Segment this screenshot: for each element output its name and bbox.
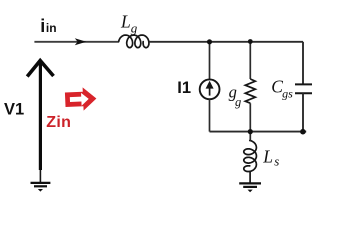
current source I1 (circle with up arrow) (200, 79, 220, 99)
node: junction dot bottom wire / Cgs (300, 129, 306, 135)
svg-text:Ls: Ls (262, 146, 279, 168)
wire: top horizontal input wire (34, 41, 118, 43)
wire: bottom horizontal wire (210, 131, 307, 133)
wire: capacitor top lead (right vertical drop) (302, 42, 304, 84)
svg-text:V1: V1 (4, 101, 24, 119)
node: junction dot top wire / gg (248, 39, 253, 44)
wire: top wire from Lg to top-right corner (149, 41, 303, 43)
ground (under Ls) (239, 183, 261, 192)
wire: Ls top lead (249, 132, 251, 141)
svg-text:Zin: Zin (46, 114, 71, 131)
wire: Ls bottom lead to ground (249, 172, 251, 183)
inductor Lg (119, 35, 149, 48)
capacitor Cgs (295, 84, 312, 93)
wire: resistor top lead (249, 42, 251, 79)
inductor Ls (244, 141, 257, 172)
wire: capacitor bottom lead (302, 93, 304, 131)
svg-text:I1: I1 (177, 79, 191, 97)
wire: resistor bottom lead (249, 103, 251, 131)
svg-text:Cgs: Cgs (271, 77, 293, 101)
node: junction dot bottom wire / Ls (248, 129, 253, 134)
source V1 (upward arrow) (27, 61, 53, 170)
ground (under V1) (31, 183, 51, 192)
wire: V1 ground stub (39, 170, 41, 182)
svg-text:gg: gg (229, 83, 242, 109)
wire: current source top lead (209, 42, 211, 80)
svg-text:iin: iin (40, 16, 56, 36)
resistor gg (zigzag) (245, 79, 255, 103)
svg-text:Lg: Lg (120, 12, 138, 36)
impedance annotation arrow (red block arrow Zin) (65, 87, 97, 112)
node: current-direction arrowhead on input wire (i_in) (75, 38, 87, 45)
wire: current source bottom lead (209, 99, 211, 131)
node: junction dot top wire / I1 (207, 39, 212, 44)
